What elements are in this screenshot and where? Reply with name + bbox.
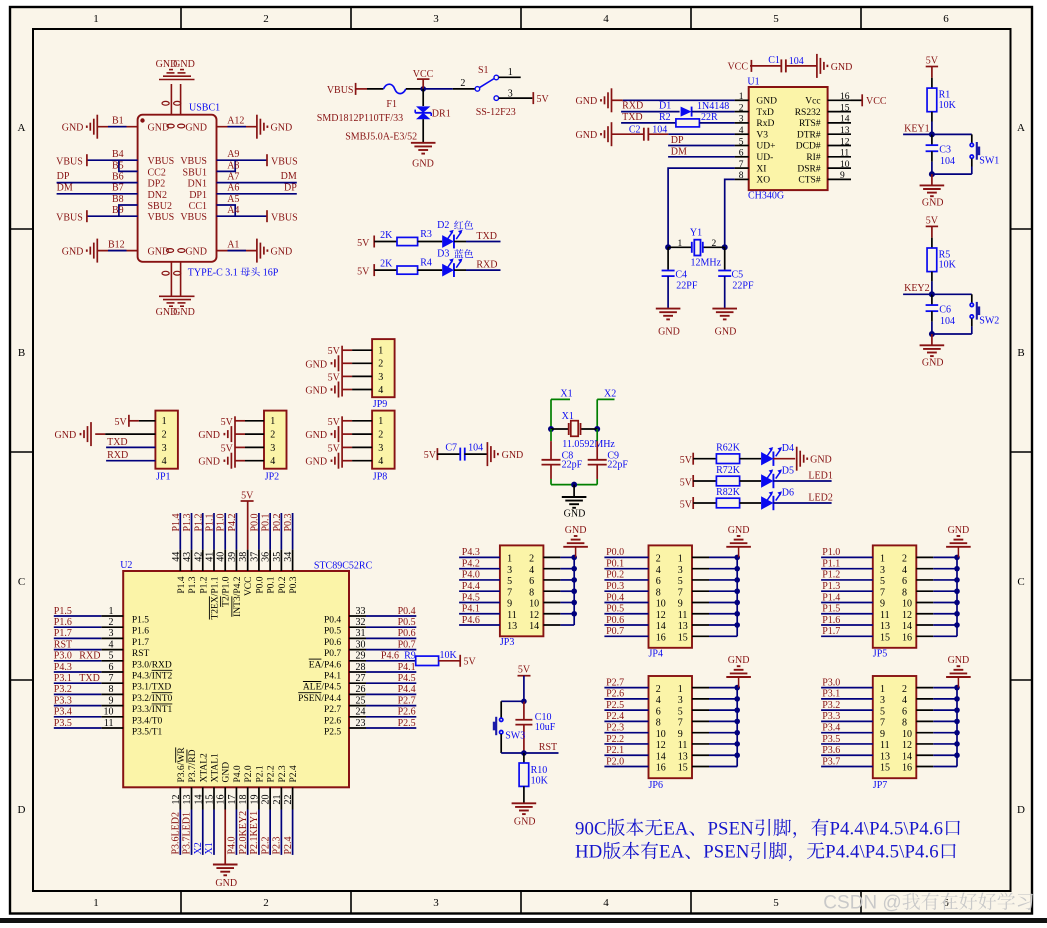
svg-text:P1.6: P1.6 <box>822 615 840 626</box>
wire R5 to KEY2 node <box>931 272 933 282</box>
svg-text:8: 8 <box>902 587 907 598</box>
svg-text:TXD: TXD <box>79 673 100 684</box>
svg-text:PSEN/P4.4: PSEN/P4.4 <box>298 694 341 704</box>
svg-text:CSDN: CSDN <box>823 893 877 914</box>
wire B6 DP <box>57 182 138 184</box>
switch S1 SS-12F23 <box>475 87 480 92</box>
ground GND below C4 <box>656 308 681 310</box>
svg-text:5: 5 <box>880 576 885 587</box>
svg-text:S1: S1 <box>478 65 489 76</box>
wire node to C6 <box>931 294 933 305</box>
wire R3 to D2 <box>418 241 443 243</box>
ground GND below C6 <box>920 344 945 346</box>
power ground at JP2 pin2 <box>230 426 232 442</box>
wire junction to GND <box>573 485 575 497</box>
svg-text:22pF: 22pF <box>607 460 628 471</box>
capacitor C8 22pF <box>542 459 561 461</box>
svg-text:2: 2 <box>162 430 167 441</box>
svg-text:P1.4: P1.4 <box>171 513 182 531</box>
svg-text:D5: D5 <box>782 466 794 477</box>
svg-text:13: 13 <box>507 621 517 632</box>
svg-text:1: 1 <box>162 416 167 427</box>
svg-text:VBUS: VBUS <box>180 212 207 223</box>
svg-text:24: 24 <box>356 707 366 718</box>
wire node to C3 <box>931 134 933 145</box>
power ground at U1 pin1 <box>611 88 613 112</box>
wire JP7 row7 P3.6 <box>821 754 873 756</box>
svg-text:XTAL2: XTAL2 <box>199 753 209 783</box>
svg-text:DSR#: DSR# <box>797 164 820 174</box>
svg-text:P4.3: P4.3 <box>54 662 72 673</box>
svg-text:D3: D3 <box>437 249 449 260</box>
svg-text:P3.4: P3.4 <box>822 722 840 733</box>
wire JP2 pin4 GND <box>235 460 245 462</box>
svg-text:7: 7 <box>109 673 114 684</box>
svg-text:22pF: 22pF <box>562 460 583 471</box>
wire lower node to GND <box>931 174 933 185</box>
wire C3 to lower node <box>931 151 933 162</box>
svg-text:CTS#: CTS# <box>798 176 820 186</box>
svg-text:1: 1 <box>270 416 275 427</box>
svg-text:CC1: CC1 <box>189 201 207 212</box>
wire DM to U1 pin6 <box>668 156 735 158</box>
power ground right of A12 <box>256 115 258 139</box>
wire JP7 row3 P3.2 <box>821 709 873 711</box>
wire JP3 row5 P4.5 <box>459 601 500 603</box>
svg-text:1: 1 <box>678 239 683 249</box>
svg-text:5V: 5V <box>926 55 939 66</box>
svg-text:P0.5: P0.5 <box>606 604 624 615</box>
svg-text:X1: X1 <box>560 389 572 400</box>
power ground right of D4 <box>796 447 798 471</box>
svg-text:GND: GND <box>55 430 77 441</box>
svg-text:P2.7: P2.7 <box>398 695 416 706</box>
capacitor C5 22PF <box>718 270 731 272</box>
svg-text:PSEN: PSEN <box>708 818 755 839</box>
svg-text:14: 14 <box>902 751 912 762</box>
svg-text:22PF: 22PF <box>732 280 754 291</box>
svg-text:SS-12F23: SS-12F23 <box>476 107 516 118</box>
svg-text:4: 4 <box>902 695 907 706</box>
svg-text:5: 5 <box>739 137 744 147</box>
IC U1 CH340G body <box>749 87 828 190</box>
svg-text:2: 2 <box>263 897 269 909</box>
svg-text:2: 2 <box>739 103 744 113</box>
svg-text:GND: GND <box>62 247 84 258</box>
svg-text:GND: GND <box>576 130 598 141</box>
wire B12 GND <box>97 250 137 252</box>
svg-text:GND: GND <box>222 762 232 783</box>
wire X1 junction to C8 <box>550 429 552 441</box>
resistor R1 10K <box>927 88 937 112</box>
node RST <box>521 750 527 756</box>
svg-text:P1.5: P1.5 <box>132 616 149 626</box>
svg-text:P4.6: P4.6 <box>462 615 480 626</box>
wire JP7 row2 P3.1 <box>821 698 873 700</box>
svg-text:16: 16 <box>216 795 227 805</box>
wire JP6 row3 P2.5 <box>604 709 648 711</box>
svg-text:HD: HD <box>575 842 602 863</box>
power ground right of C1 <box>816 54 818 78</box>
svg-text:13: 13 <box>678 751 688 762</box>
wire R2 to U1 pin3 <box>699 122 734 124</box>
svg-text:D2: D2 <box>437 220 449 231</box>
U2 left name overlines <box>152 669 173 671</box>
resistor R8 2K <box>716 498 739 508</box>
power VBUS right of A4 <box>266 210 268 222</box>
node XO junction <box>722 244 728 250</box>
power VBUS at F1 <box>355 83 357 95</box>
svg-text:P3.2: P3.2 <box>822 700 840 711</box>
svg-text:18: 18 <box>238 795 249 805</box>
svg-text:P2.7: P2.7 <box>606 677 624 688</box>
svg-text:15: 15 <box>880 763 890 774</box>
svg-text:Y1: Y1 <box>690 228 702 239</box>
svg-text:6: 6 <box>529 576 534 587</box>
wire JP4 row8 P0.7 <box>604 635 648 637</box>
power 5V at R8 <box>692 497 694 509</box>
svg-text:JP1: JP1 <box>156 472 170 483</box>
svg-text:GND: GND <box>271 123 293 134</box>
wire JP7 row4 P3.3 <box>821 720 873 722</box>
wire JP6 row2 P2.6 <box>604 698 648 700</box>
svg-text:X2: X2 <box>604 389 616 400</box>
wire TXD to R2 <box>621 122 676 124</box>
wire D4 to GND <box>773 458 795 460</box>
crystal Y1 12MHz <box>691 242 693 253</box>
svg-text:C1: C1 <box>768 55 780 66</box>
power 5V at R6 <box>692 453 694 465</box>
wire 5V to R5 <box>931 226 933 237</box>
svg-text:2: 2 <box>263 13 269 25</box>
svg-text:B1: B1 <box>112 115 124 126</box>
svg-text:P4.0: P4.0 <box>233 765 243 782</box>
svg-text:30: 30 <box>356 639 366 650</box>
svg-text:P2.5: P2.5 <box>324 728 341 738</box>
svg-text:26: 26 <box>356 684 366 695</box>
wire node to SW3 <box>501 700 524 702</box>
wire U1 pin8 XO to Y1 <box>725 179 735 247</box>
svg-text:SW2: SW2 <box>979 315 999 326</box>
svg-text:P2.0KEY2: P2.0KEY2 <box>238 811 249 855</box>
node KEY2 <box>929 291 935 297</box>
svg-text:13: 13 <box>182 795 193 805</box>
wire A8 jog to A9 <box>217 160 236 171</box>
svg-text:JP2: JP2 <box>265 472 279 483</box>
power ground at JP9 pin4 <box>338 382 340 398</box>
svg-text:10: 10 <box>656 729 666 740</box>
ground GND below DR1 <box>411 142 436 144</box>
svg-text:GND: GND <box>514 817 536 828</box>
wire JP7 row1 P3.0 <box>821 687 873 689</box>
svg-text:5: 5 <box>773 897 779 909</box>
wire JP2 pin3 5V <box>235 446 245 448</box>
svg-text:RXD: RXD <box>622 101 643 112</box>
svg-text:P1.6: P1.6 <box>54 617 72 628</box>
svg-text:11: 11 <box>507 610 517 621</box>
svg-text:INT3/P4.2: INT3/P4.2 <box>233 576 243 617</box>
svg-text:12: 12 <box>902 740 912 751</box>
power VCC at U1 pin16 <box>851 99 862 101</box>
svg-text:7: 7 <box>507 587 512 598</box>
svg-text:4: 4 <box>902 565 907 576</box>
node VCC junction <box>420 86 426 92</box>
svg-text:11: 11 <box>104 718 114 729</box>
svg-text:B8: B8 <box>112 194 124 205</box>
svg-text:F1: F1 <box>386 99 397 110</box>
svg-text:P0.4: P0.4 <box>606 592 624 603</box>
svg-text:6: 6 <box>656 576 661 587</box>
svg-text:P0.2: P0.2 <box>606 570 624 581</box>
wire JP9 pin1 5V <box>342 349 352 351</box>
svg-text:JP9: JP9 <box>373 399 387 410</box>
wire X1 down <box>550 399 552 429</box>
svg-text:9: 9 <box>880 599 885 610</box>
svg-text:P0.7: P0.7 <box>398 639 416 650</box>
resistor R9 10K <box>416 656 439 665</box>
svg-text:13: 13 <box>880 751 890 762</box>
wire S1 pin3 to 5V <box>499 97 533 99</box>
U2 top name overlines <box>208 596 210 619</box>
svg-text:12: 12 <box>656 740 666 751</box>
JP7 bus junctions <box>954 685 960 691</box>
svg-text:JP3: JP3 <box>500 637 514 648</box>
svg-text:4: 4 <box>603 13 609 25</box>
svg-text:1: 1 <box>93 897 99 909</box>
wire JP5 row4 P1.3 <box>821 590 873 592</box>
svg-text:DP: DP <box>671 135 684 146</box>
svg-text:10K: 10K <box>531 776 549 787</box>
svg-text:P3.7: P3.7 <box>822 756 840 767</box>
wire X2 down <box>596 399 598 429</box>
ground GND above JP3 bus <box>563 546 588 548</box>
svg-text:GND: GND <box>564 509 586 520</box>
svg-text:1: 1 <box>508 67 513 78</box>
svg-text:D6: D6 <box>782 488 794 499</box>
svg-text:2: 2 <box>902 554 907 565</box>
svg-text:SMBJ5.0A-E3/52: SMBJ5.0A-E3/52 <box>345 131 417 142</box>
capacitor C2 104 <box>643 128 645 141</box>
svg-text:P1.3: P1.3 <box>822 581 840 592</box>
svg-text:GND: GND <box>305 386 327 397</box>
svg-text:C5: C5 <box>732 269 744 280</box>
svg-text:4: 4 <box>162 456 167 467</box>
svg-text:SMD1812P110TF/33: SMD1812P110TF/33 <box>317 113 403 124</box>
svg-text:14: 14 <box>193 795 204 805</box>
svg-text:5V: 5V <box>680 499 693 510</box>
border column ticks <box>180 7 182 29</box>
svg-text:RST: RST <box>54 639 72 650</box>
wire JP5 row6 P1.5 <box>821 613 873 615</box>
svg-text:P1.1: P1.1 <box>822 558 840 569</box>
wire JP2 pin1 5V <box>235 420 245 422</box>
wire R6 to D4 <box>740 458 762 460</box>
svg-text:5V: 5V <box>680 455 693 466</box>
svg-text:1: 1 <box>739 92 744 102</box>
svg-text:GND: GND <box>922 197 944 208</box>
svg-text:R9: R9 <box>404 651 416 662</box>
svg-text:11.0592MHz: 11.0592MHz <box>562 439 615 450</box>
wire C8 down <box>550 465 552 479</box>
svg-text:8: 8 <box>109 684 114 695</box>
svg-text:9: 9 <box>678 599 683 610</box>
svg-text:14: 14 <box>656 621 666 632</box>
svg-text:P4.3: P4.3 <box>462 547 480 558</box>
svg-text:P2.4: P2.4 <box>606 711 624 722</box>
svg-text:RXD: RXD <box>107 450 128 461</box>
svg-text:104: 104 <box>940 316 955 327</box>
svg-text:P3.3: P3.3 <box>822 711 840 722</box>
svg-text:4: 4 <box>656 565 661 576</box>
svg-text:JP6: JP6 <box>649 780 663 791</box>
node KEY1 <box>929 131 935 137</box>
svg-text:10: 10 <box>902 599 912 610</box>
svg-text:P3.4/T0: P3.4/T0 <box>132 716 163 726</box>
svg-text:P0.0: P0.0 <box>249 513 260 531</box>
fuse F1 <box>384 84 406 93</box>
connector JP6 body <box>649 676 693 778</box>
svg-text:P0.0: P0.0 <box>255 576 265 593</box>
capacitor C1 <box>780 59 782 72</box>
svg-text:8: 8 <box>902 718 907 729</box>
svg-text:P4.0: P4.0 <box>227 836 238 854</box>
switch SW3 <box>500 718 503 721</box>
svg-text:P0.1: P0.1 <box>267 576 277 593</box>
svg-text:7: 7 <box>880 587 885 598</box>
wire Y1 to XO junction <box>703 246 725 248</box>
JP4 bus junctions <box>734 555 740 561</box>
wire JP7 row8 P3.7 <box>821 765 873 767</box>
svg-text:P1.0: P1.0 <box>216 513 227 531</box>
svg-text:43: 43 <box>182 552 193 562</box>
svg-text:GND: GND <box>810 455 832 466</box>
wire JP8 pin1 5V <box>342 420 352 422</box>
svg-text:DP: DP <box>57 171 70 182</box>
svg-text:RXD: RXD <box>476 260 497 271</box>
svg-text:11: 11 <box>840 149 849 159</box>
svg-text:B: B <box>1017 347 1024 359</box>
svg-text:SBU2: SBU2 <box>148 201 172 212</box>
U1 left pin stubs <box>735 99 749 101</box>
wire JP7 row5 P3.4 <box>821 732 873 734</box>
svg-text:GND: GND <box>576 96 598 107</box>
svg-text:P0.6: P0.6 <box>398 628 416 639</box>
svg-text:5: 5 <box>109 651 114 662</box>
svg-text:D: D <box>18 804 26 816</box>
svg-text:P4.0: P4.0 <box>462 570 480 581</box>
wire JP5 row7 P1.6 <box>821 624 873 626</box>
svg-text:5: 5 <box>678 576 683 587</box>
svg-text:GND: GND <box>948 525 970 536</box>
svg-text:XI: XI <box>756 164 766 174</box>
power ground at JP9 pin2 <box>338 355 340 371</box>
wire 5V to R8 <box>693 502 716 504</box>
wire JP1 pin4 RXD <box>106 460 155 462</box>
svg-text:GND: GND <box>62 123 84 134</box>
wire JP8 pin3 5V <box>342 446 352 448</box>
svg-text:2: 2 <box>378 359 383 370</box>
svg-text:RST: RST <box>539 742 557 753</box>
svg-text:P3.1: P3.1 <box>822 689 840 700</box>
svg-text:USBC1: USBC1 <box>189 103 220 114</box>
connector JP3 body <box>500 545 544 636</box>
wire JP6 row1 P2.7 <box>604 687 648 689</box>
svg-text:3: 3 <box>880 565 885 576</box>
svg-text:2: 2 <box>656 554 661 565</box>
wire R8 to D6 <box>740 502 762 504</box>
svg-text:4: 4 <box>378 385 383 396</box>
ground GND below C3 <box>920 184 945 186</box>
svg-text:DP: DP <box>284 183 297 194</box>
wire D6 to LED2 <box>773 502 831 504</box>
svg-text:10: 10 <box>902 729 912 740</box>
resistor R6 2K <box>716 454 739 464</box>
svg-text:A: A <box>1017 122 1025 134</box>
svg-text:B9: B9 <box>112 205 124 216</box>
wire R10 to GND <box>523 786 525 803</box>
svg-text:5V: 5V <box>537 94 550 105</box>
svg-text:DP1: DP1 <box>189 190 207 201</box>
wire JP3 row6 P4.1 <box>459 613 500 615</box>
power 5V rail bar at JP8 <box>341 416 343 467</box>
svg-text:T2EX/P1.1: T2EX/P1.1 <box>210 576 220 619</box>
wire R9 to 5V <box>439 660 461 662</box>
wire JP1 pin3 TXD <box>106 446 155 448</box>
svg-text:P4.2: P4.2 <box>462 558 480 569</box>
node below C6 <box>929 331 935 337</box>
svg-text:12: 12 <box>529 610 539 621</box>
wire JP9 pin4 GND <box>342 389 352 391</box>
wire C7 to GND <box>464 453 487 455</box>
wire JP3 row7 P4.6 <box>459 624 500 626</box>
wire JP7 row6 P3.5 <box>821 743 873 745</box>
svg-text:R62K: R62K <box>716 443 741 454</box>
wire B9 VBUS <box>87 215 138 217</box>
svg-text:P3.3/INT1: P3.3/INT1 <box>132 705 173 715</box>
svg-text:P1.2: P1.2 <box>822 570 840 581</box>
svg-text:2: 2 <box>460 78 465 89</box>
svg-text:10uF: 10uF <box>535 722 556 733</box>
svg-text:P0.3: P0.3 <box>606 581 624 592</box>
connector JP5 body <box>873 545 917 647</box>
svg-text:VCC: VCC <box>244 577 254 597</box>
wire JP4 row6 P0.5 <box>604 613 648 615</box>
svg-text:P1.5: P1.5 <box>54 606 72 617</box>
svg-text:104: 104 <box>468 443 483 454</box>
svg-text:B12: B12 <box>108 239 125 250</box>
svg-text:P0.6: P0.6 <box>606 615 624 626</box>
svg-text:B7: B7 <box>112 183 124 194</box>
svg-text:10K: 10K <box>939 260 957 271</box>
connector JP1 body <box>155 411 178 469</box>
svg-text:4: 4 <box>529 565 534 576</box>
connector JP4 body <box>649 545 693 647</box>
svg-text:X1: X1 <box>562 411 574 422</box>
wire F1 to VCC node <box>406 88 423 90</box>
svg-text:P1.7: P1.7 <box>822 626 840 637</box>
svg-text:1: 1 <box>93 13 99 25</box>
JP3 ground bus <box>573 557 575 625</box>
wire JP1 pin1 5V <box>129 420 139 422</box>
wire JP6 row4 P2.4 <box>604 720 648 722</box>
wire GND to C2 <box>612 133 644 135</box>
svg-text:P4.5: P4.5 <box>462 592 480 603</box>
wire node to S1 pin2 <box>423 88 453 90</box>
svg-text:5V: 5V <box>464 656 477 667</box>
power ground at JP8 pin4 <box>338 453 340 469</box>
svg-text:LED1: LED1 <box>808 471 832 482</box>
svg-text:7: 7 <box>880 718 885 729</box>
